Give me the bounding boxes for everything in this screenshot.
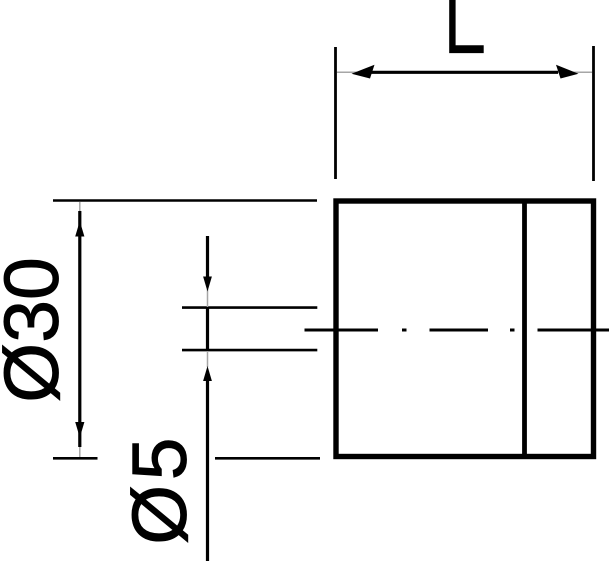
svg-text:Ø30: Ø30 (0, 257, 75, 403)
svg-text:Ø5: Ø5 (117, 433, 203, 545)
